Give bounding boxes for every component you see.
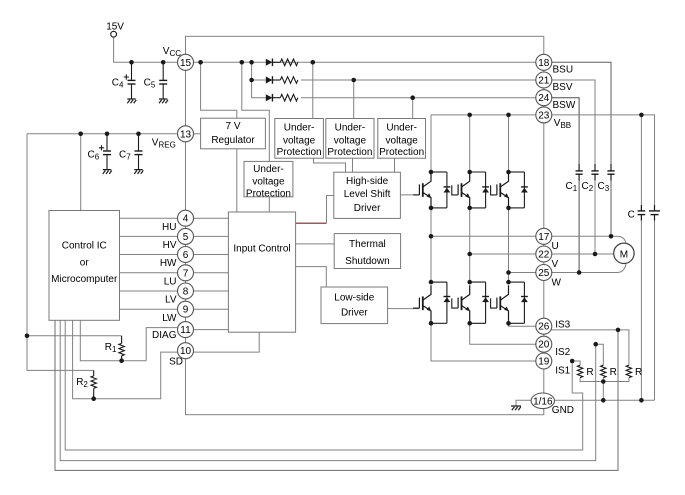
sense resistor R phase W — [626, 365, 631, 377]
wire V phase node — [469, 208, 471, 282]
svg-text:Regulator: Regulator — [211, 135, 255, 146]
block under-voltage protection 1 — [275, 119, 324, 159]
wire pin 24 to bootstrap cap C1 — [544, 98, 579, 165]
freewheel diode Q5 — [470, 281, 486, 283]
bootstrap diode D3 — [266, 94, 273, 101]
block Control IC or Microcomputer — [49, 211, 120, 321]
svg-text:U: U — [552, 241, 559, 252]
wire pin 4 to input control — [186, 217, 229, 219]
ground C5 — [159, 99, 168, 103]
junction U node — [429, 234, 434, 239]
svg-text:18: 18 — [538, 58, 550, 69]
wire control IC sense feedback 2 (middle rail) — [60, 320, 596, 460]
freewheel diode Q2 — [470, 171, 486, 173]
svg-text:DIAG: DIAG — [152, 330, 177, 341]
svg-text:R: R — [610, 367, 617, 378]
svg-text:Shutdown: Shutdown — [345, 256, 389, 267]
junction IS3 — [616, 328, 621, 333]
wire pin 17 to motor U — [544, 235, 618, 237]
pin 23 VBB — [536, 107, 552, 123]
svg-text:or: or — [80, 258, 90, 269]
IGBT Q6 low-side W — [499, 296, 501, 310]
pin 15 VCC — [178, 54, 194, 70]
svg-text:C: C — [628, 209, 635, 220]
junction row3-UVP3 — [410, 95, 415, 100]
svg-text:IS1: IS1 — [555, 365, 570, 376]
svg-text:23: 23 — [538, 110, 550, 121]
wire control IC to pin 9 (LW) — [120, 308, 186, 310]
pin 13 VREG — [178, 126, 194, 142]
svg-text:Control IC: Control IC — [62, 241, 107, 252]
pin 10 SD — [178, 343, 194, 359]
pin 21 BSV — [536, 72, 552, 88]
junction VBB cap — [639, 113, 644, 118]
wire bootstrap row 2 to pin 21 — [301, 79, 544, 81]
junction ground rail sense — [601, 398, 606, 403]
wire VREG rail — [27, 133, 186, 135]
svg-text:5: 5 — [183, 232, 189, 243]
junction VCC-C5 — [161, 60, 166, 65]
pin 25 W — [536, 265, 552, 281]
wire low UVP to input control — [268, 197, 270, 212]
wire VCC rail right of pin 15 to bootstrap diodes — [186, 61, 266, 63]
motor lead W arc — [618, 262, 627, 272]
junction C2-V — [593, 252, 598, 257]
wire low-side driver to gate of Q4 — [388, 308, 420, 310]
junction VCC branch — [240, 60, 245, 65]
wire SD rail R2 bottom — [73, 320, 186, 398]
svg-text:HU: HU — [162, 222, 176, 233]
pin 17 U — [536, 228, 552, 244]
wire W phase to pin 25 — [509, 272, 544, 274]
svg-text:W: W — [552, 278, 562, 289]
wire IS2 to sense resistor R2 — [596, 344, 604, 365]
svg-text:Driver: Driver — [354, 203, 381, 214]
sense resistor R phase V — [601, 365, 606, 377]
pin 1/16 GND — [531, 393, 554, 409]
sense resistor R phase U — [577, 365, 582, 377]
block under-voltage protection 2 — [326, 119, 374, 159]
wire Q6 emitter to IS3 — [509, 323, 544, 326]
svg-text:20: 20 — [538, 340, 550, 351]
wire U phase to pin 17 — [431, 235, 544, 237]
svg-text:IS2: IS2 — [555, 347, 570, 358]
junction C1-W — [577, 270, 582, 275]
ground C4 — [127, 99, 136, 103]
bootstrap diode D1 — [266, 59, 273, 66]
svg-text:voltage: voltage — [334, 135, 367, 146]
wire control IC to pin 5 (HV) — [120, 235, 186, 237]
junction VBB Q3 — [506, 113, 511, 118]
svg-text:15: 15 — [180, 58, 192, 69]
wire UVP2 to high-side driver — [352, 158, 354, 172]
junction VREG-control — [78, 132, 83, 137]
wire pin 5 to input control — [186, 235, 229, 237]
wire pin 7 to input control — [186, 272, 229, 274]
wire input control to low-side driver — [296, 267, 327, 287]
junction ground rail cap — [639, 398, 644, 403]
junction R2-SD — [91, 396, 96, 401]
svg-text:7 V: 7 V — [225, 121, 240, 132]
wire bootstrap cap C2 to V — [594, 180, 596, 254]
pin 26 IS3 — [536, 318, 552, 334]
svg-text:8: 8 — [183, 287, 189, 298]
pin 19 IS1 — [536, 353, 552, 369]
wire 15V supply to VCC rail — [114, 37, 186, 62]
wire VCC branch to low under-voltage protection — [242, 62, 269, 161]
junction VREG rail R1 tap — [25, 334, 30, 339]
IGBT Q5 low-side V — [461, 296, 463, 310]
wire reservoir cap 1 bottom — [640, 215, 642, 400]
reservoir capacitor C left — [640, 205, 642, 211]
svg-text:M: M — [620, 249, 628, 260]
wire control IC to pin 8 (LV) — [120, 290, 186, 292]
junction V node — [467, 252, 472, 257]
wire bootstrap row 1 to pin 18 — [274, 61, 544, 63]
wire pin 25 to motor W — [544, 272, 618, 274]
block Input Control — [228, 212, 295, 332]
wire VBB rail pin 23 to reservoir caps — [544, 115, 655, 211]
svg-text:BSU: BSU — [553, 64, 574, 75]
junction sense common — [601, 379, 606, 384]
bootstrap capacitor C1 — [578, 164, 580, 171]
wire bootstrap cap C1 to W — [578, 180, 580, 273]
svg-text:Under-: Under- — [386, 123, 417, 134]
junction VCC-regulator — [198, 60, 203, 65]
pin 5 HV — [178, 228, 194, 244]
svg-text:Protection: Protection — [277, 147, 322, 158]
svg-text:voltage: voltage — [283, 135, 316, 146]
wire bootstrap row 3 feed — [252, 80, 266, 98]
svg-text:IS3: IS3 — [555, 320, 570, 331]
bootstrap resistor row2 — [280, 77, 298, 84]
svg-text:Under-: Under- — [335, 123, 366, 134]
junction C3-U — [609, 234, 614, 239]
wire control IC to pin 7 (LU) — [120, 272, 186, 274]
svg-text:LU: LU — [164, 276, 177, 287]
wire UVP1 to high-side driver — [314, 158, 346, 172]
svg-text:19: 19 — [538, 357, 550, 368]
ground C7 — [134, 170, 143, 174]
wire pin 21 to bootstrap cap C2 — [544, 80, 595, 165]
svg-text:Under-: Under- — [253, 164, 284, 175]
svg-text:7: 7 — [183, 268, 189, 279]
svg-text:6: 6 — [183, 250, 189, 261]
wire VREG to control IC top — [80, 134, 82, 211]
resistor R1 — [121, 336, 123, 344]
svg-text:Input Control: Input Control — [233, 243, 290, 254]
svg-text:HW: HW — [160, 258, 177, 269]
svg-text:Level Shift: Level Shift — [344, 189, 391, 200]
junction VREG-C7 — [136, 132, 141, 137]
svg-text:BSW: BSW — [553, 100, 576, 111]
wire Q1 collector to VBB rail — [430, 115, 432, 172]
wire input control to thermal shutdown — [296, 243, 335, 245]
block under-voltage protection low — [244, 161, 293, 196]
wire control IC to pin 6 (HW) — [120, 254, 186, 256]
freewheel diode Q6 — [509, 281, 525, 283]
svg-text:26: 26 — [538, 322, 550, 333]
pin 11 DIAG — [178, 322, 194, 338]
wire pin 10 to input control — [186, 332, 260, 352]
wire bootstrap row 3 to pin 24 — [301, 97, 544, 99]
wire R1 pull-up top — [27, 335, 122, 337]
svg-text:13: 13 — [180, 129, 192, 140]
svg-text:V: V — [552, 259, 559, 270]
svg-text:15V: 15V — [106, 22, 124, 33]
pin 24 BSW — [536, 90, 552, 106]
pin 7 LU — [178, 265, 194, 281]
reservoir capacitor C right — [654, 205, 656, 211]
svg-text:Microcomputer: Microcomputer — [51, 274, 118, 285]
wire UVP3 to high-side driver — [394, 158, 396, 172]
bootstrap capacitor C3 — [610, 164, 612, 171]
ground symbol GND pin — [511, 406, 521, 410]
pin 18 BSU — [536, 54, 552, 70]
capacitor C5 — [162, 62, 164, 80]
wire reservoir cap 1 top — [640, 115, 642, 211]
wire UVP1 sense tap — [312, 62, 314, 118]
freewheel diode Q3 — [509, 171, 525, 173]
junction VBB Q2 — [467, 113, 472, 118]
wire high-side driver to gate of Q1 — [400, 194, 419, 196]
pin 8 LV — [178, 283, 194, 299]
wire IS1 to sense resistor R1 — [572, 361, 580, 365]
wire control IC sense feedback 3 (outer rail) — [55, 320, 618, 470]
freewheel diode Q4 — [431, 281, 447, 283]
svg-text:9: 9 — [183, 305, 189, 316]
wire pin 8 to input control — [186, 290, 229, 292]
wire Q5 emitter to IS2 — [470, 323, 544, 344]
capacitor C4 — [131, 62, 133, 80]
IGBT Q1 high-side U — [422, 183, 424, 197]
svg-text:17: 17 — [538, 232, 550, 243]
IC package outline — [186, 36, 544, 414]
bootstrap resistor row1 — [280, 59, 298, 66]
motor M — [614, 243, 634, 263]
wire bootstrap row 2 feed — [252, 62, 266, 80]
ground C6 — [103, 170, 112, 174]
supply terminal 15V — [111, 31, 117, 37]
wire DIAG rail R1 bottom — [80, 320, 146, 360]
svg-text:Protection: Protection — [246, 188, 291, 199]
motor lead U arc — [618, 236, 627, 244]
svg-text:Driver: Driver — [341, 307, 368, 318]
wire VCC branch to 7V regulator — [201, 62, 237, 118]
junction IS1 — [570, 359, 575, 364]
wire ground rail — [554, 399, 655, 401]
freewheel diode Q1 — [431, 171, 447, 173]
block High-side Level Shift Driver — [334, 172, 401, 218]
wire pin 9 to input control — [186, 308, 229, 310]
junction bootstrap row2 — [249, 78, 254, 83]
wire W phase node — [508, 208, 510, 282]
wire pin 18 to bootstrap cap C3 — [544, 62, 611, 164]
wire pin 13 to regulator — [186, 133, 201, 135]
svg-text:24: 24 — [538, 93, 550, 104]
bootstrap capacitor C2 — [594, 164, 596, 171]
wire DIAG node to pin 11 — [146, 328, 185, 361]
svg-text:1/16: 1/16 — [533, 396, 553, 407]
wire Q4 emitter to IS1 — [431, 323, 544, 361]
svg-text:HV: HV — [163, 240, 177, 251]
svg-text:GND: GND — [552, 405, 574, 416]
svg-text:Under-: Under- — [284, 123, 315, 134]
wire IS3 to sense resistor R3 — [544, 330, 629, 365]
wire reservoir cap 2 bottom — [654, 215, 656, 400]
wire Q3 collector to VBB rail — [508, 115, 510, 172]
svg-text:LV: LV — [165, 295, 177, 306]
block under-voltage protection 3 — [378, 119, 426, 159]
wire ground pin to earth — [516, 400, 532, 406]
wire input control to high-side driver (red segment) — [296, 222, 327, 224]
svg-text:voltage: voltage — [252, 176, 285, 187]
svg-text:Protection: Protection — [327, 147, 372, 158]
svg-text:25: 25 — [538, 268, 550, 279]
wire sense resistor commons — [580, 378, 629, 382]
wire V phase to pin 22 — [470, 253, 544, 255]
wire U phase node — [430, 208, 432, 282]
pin 4 HU — [178, 210, 194, 226]
wire 7V regulator output to input control — [236, 149, 238, 212]
pin 22 V — [536, 246, 552, 262]
wire UVP3 sense tap — [412, 98, 414, 119]
IGBT Q2 high-side V — [461, 183, 463, 197]
wire sense resistor R2 bottom — [602, 378, 604, 382]
junction row2-UVP2 — [351, 78, 356, 83]
wire bootstrap cap C3 to U — [610, 180, 612, 236]
svg-text:SD: SD — [169, 356, 183, 367]
wire Q2 collector to VBB rail — [469, 115, 471, 172]
svg-text:R: R — [586, 367, 593, 378]
svg-text:High-side: High-side — [346, 176, 389, 187]
wire control IC sense feedback 1 (inner rail) — [65, 320, 583, 450]
svg-text:Protection: Protection — [379, 147, 424, 158]
svg-text:R: R — [635, 367, 642, 378]
block Thermal Shutdown — [334, 234, 400, 269]
svg-text:voltage: voltage — [386, 135, 419, 146]
capacitor C7 — [138, 134, 140, 151]
svg-text:22: 22 — [538, 250, 550, 261]
pin 20 IS2 — [536, 336, 552, 352]
wire pin 22 to motor V — [544, 253, 614, 255]
resistor R2 — [93, 370, 95, 376]
svg-text:21: 21 — [538, 76, 550, 87]
svg-text:11: 11 — [180, 325, 191, 336]
junction R1-DIAG — [119, 358, 124, 363]
svg-text:Thermal: Thermal — [349, 239, 386, 250]
block Low-side Driver — [321, 287, 388, 324]
svg-text:LW: LW — [162, 313, 177, 324]
bootstrap resistor row3 — [280, 94, 298, 101]
wire UVP2 sense tap — [353, 80, 355, 119]
IGBT Q4 low-side U — [422, 296, 424, 310]
bootstrap diode D2 — [266, 77, 273, 84]
pin 9 LW — [178, 301, 194, 317]
junction W node — [506, 270, 511, 275]
svg-text:Low-side: Low-side — [334, 292, 374, 303]
svg-text:4: 4 — [183, 214, 189, 225]
wire input control to high-side driver vertical — [327, 196, 334, 224]
junction VREG-C6 — [105, 132, 110, 137]
pin 6 HW — [178, 247, 194, 263]
capacitor C6 — [106, 134, 108, 151]
junction IS2 — [593, 342, 598, 347]
wire VBB rail to high-side collectors — [431, 114, 544, 116]
wire sense common to ground rail — [602, 382, 604, 401]
wire control IC to pin 4 (HU) — [120, 217, 186, 219]
junction VCC bootstrap — [249, 60, 254, 65]
wire VREG left rail down to R1/R2 — [27, 134, 94, 371]
junction row1-UVP1 — [311, 60, 316, 65]
block 7 V Regulator — [201, 118, 266, 149]
wire pin 11 to input control — [186, 329, 229, 331]
junction VCC-C4 — [129, 60, 134, 65]
wire pin 6 to input control — [186, 254, 229, 256]
IGBT Q3 high-side W — [499, 183, 501, 197]
svg-text:BSV: BSV — [553, 82, 573, 93]
